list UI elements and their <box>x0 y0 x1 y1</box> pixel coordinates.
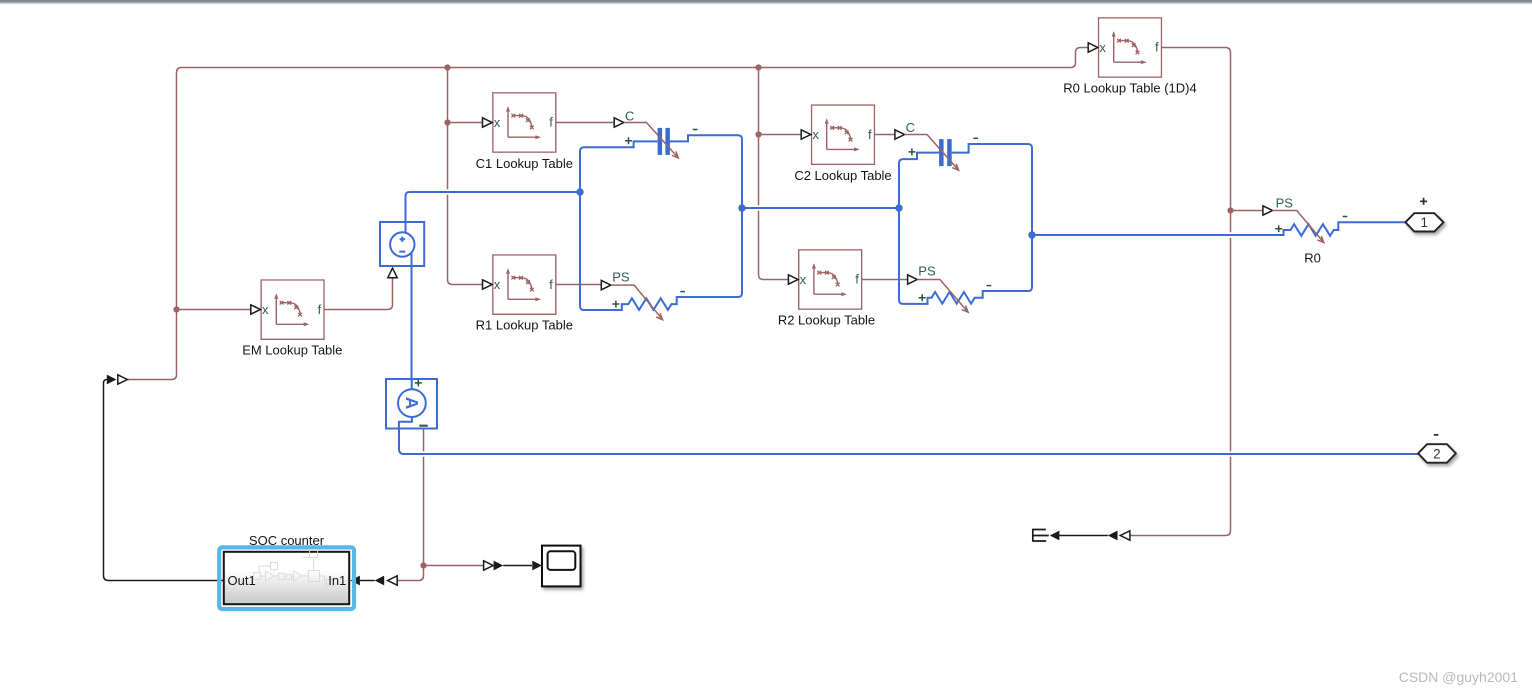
converter arrow (E side) <box>1108 531 1118 541</box>
svg-text:R1 Lookup Table: R1 Lookup Table <box>476 318 573 333</box>
svg-text:CSDN @guyh2001: CSDN @guyh2001 <box>1399 669 1518 685</box>
plus resistor branch 2 <box>919 294 926 301</box>
PS input triangle of voltage source (points up) <box>388 268 397 278</box>
input triangle R1 <box>483 280 493 289</box>
ammeter minus bar <box>419 425 427 427</box>
wire electrical RC branch 2 loop <box>899 144 1032 304</box>
wire PS variable-resistor arrow branch 1 <box>611 285 663 320</box>
junction node top rail / C2R2 branch <box>755 64 761 70</box>
current sensor (ammeter) block <box>386 379 437 429</box>
svg-text:C2 Lookup Table: C2 Lookup Table <box>794 168 891 183</box>
wire junction to scope converter <box>424 565 484 567</box>
wire branch 2 to R0 resistor and port 1 <box>1032 222 1418 236</box>
plus/minus polarity marks (dark green) <box>612 130 1347 308</box>
controlled voltage source block <box>380 222 424 266</box>
wire C1 output to C port label <box>557 122 615 124</box>
svg-text:C: C <box>625 108 634 123</box>
arrow into E symbol <box>1050 531 1060 541</box>
junction node ammeter output split <box>420 562 426 568</box>
SOC counter subsystem block <box>224 552 349 604</box>
electrical reference E symbol <box>1033 529 1049 542</box>
svg-text:PS: PS <box>612 269 630 284</box>
SOC ghost contents <box>254 550 334 587</box>
junction node C2 branch <box>755 131 761 137</box>
junction node EM branch <box>173 306 179 312</box>
wire C2 output to C port label <box>875 134 896 136</box>
ammeter plus mark <box>415 379 422 386</box>
wire C variable-capacitor arrow branch 1 <box>624 123 679 158</box>
PS diagonal arrows over components <box>611 123 1324 320</box>
wire ammeter PS output down to junction and SOC converter <box>396 429 423 581</box>
converter hollow triangle (E side) <box>1120 531 1130 540</box>
wire PS variable-resistor arrow branch 2 <box>917 280 968 313</box>
converter arrow to SOC <box>375 576 385 586</box>
white casings for blue wires crossing brown wires <box>404 192 1418 454</box>
input triangle C1 <box>483 118 493 127</box>
plus resistor branch 1 <box>612 301 619 308</box>
capacitor plates branch 2 <box>939 139 944 166</box>
minus cap branch 2 <box>973 137 978 139</box>
signal arrow into PS converter (feedback) <box>107 375 117 385</box>
port label PS branch 1 <box>601 280 611 289</box>
plus mark above port 1 <box>1420 198 1427 205</box>
junction node branch2 output <box>1028 231 1035 238</box>
lookup table block R0 (1D)4 <box>1099 18 1162 77</box>
input triangle EM <box>251 305 261 314</box>
plus cap branch 1 <box>625 137 632 144</box>
lookup table block R2 <box>799 250 862 309</box>
wire converter to SOC In1 <box>360 580 375 582</box>
junction node source-branch1 <box>576 188 583 195</box>
minus cap branch 1 <box>693 129 698 131</box>
svg-text:C: C <box>906 120 915 135</box>
minus mark above port 2 <box>1434 434 1439 436</box>
svg-text:R0: R0 <box>1304 250 1321 265</box>
scope screen <box>548 551 576 570</box>
input triangle R2 <box>788 275 798 284</box>
wire voltage source top to branch 1 <box>406 192 582 222</box>
svg-text:C1 Lookup Table: C1 Lookup Table <box>476 156 573 171</box>
scope block <box>542 546 581 587</box>
SOC counter feedback wire (black) <box>104 380 224 581</box>
plus cap branch 2 <box>909 148 916 155</box>
minus resistor branch 1 <box>680 291 685 293</box>
port label PS branch 2 <box>908 275 918 284</box>
wire voltage source bottom to ammeter <box>411 266 413 379</box>
wire EM output to controlled voltage source <box>324 276 393 309</box>
port label PS of R0 resistor <box>1263 206 1273 215</box>
junction node branch2 mid <box>895 204 902 211</box>
junction node top rail / C1R1 branch <box>444 64 450 70</box>
wire junction to C2 input <box>759 134 802 136</box>
wire junction to R0 resistor PS port <box>1231 210 1263 212</box>
arrow into scope <box>532 561 542 571</box>
svg-text:SOC counter: SOC counter <box>249 533 325 548</box>
capacitor plates branch 1 <box>658 128 663 155</box>
svg-text:R2 Lookup Table: R2 Lookup Table <box>778 312 875 327</box>
wire PS variable-resistor arrow R0 <box>1273 211 1324 243</box>
wire electrical RC branch 1 loop <box>580 135 742 310</box>
SOC counter subsystem selection halo <box>219 547 354 609</box>
junction node R0 PS branch <box>1227 207 1233 213</box>
wire PS feedback from converter to EM/top rail vertical <box>127 48 1088 380</box>
svg-text:R0 Lookup Table (1D)4: R0 Lookup Table (1D)4 <box>1063 80 1196 95</box>
port label C branch 2 <box>895 130 905 139</box>
svg-text:1: 1 <box>1421 215 1429 230</box>
wire R0 lookup output down the right side <box>1129 48 1231 536</box>
junction node C1 branch <box>444 119 450 125</box>
wire vertical branch to C2 and R2 inputs <box>759 68 789 280</box>
svg-text:EM Lookup Table: EM Lookup Table <box>242 343 342 358</box>
svg-text:A: A <box>402 397 422 410</box>
port label C branch 1 <box>614 118 624 127</box>
wire C variable-capacitor arrow branch 2 <box>905 135 959 171</box>
svg-text:PS: PS <box>918 263 936 278</box>
output port 2 hexagon <box>1418 444 1456 463</box>
converter hollow triangle (scope side) <box>484 561 494 570</box>
input triangle C2 <box>801 130 811 139</box>
wire converter to scope <box>503 565 532 567</box>
junction node branch1 mid <box>738 204 745 211</box>
wire ammeter output to port 2 <box>399 429 1418 455</box>
lookup table block C1 <box>493 93 556 152</box>
svg-text:In1: In1 <box>328 573 346 588</box>
arrow into SOC In1 <box>350 576 360 586</box>
lookup table block C2 <box>812 105 875 164</box>
output port 1 hexagon <box>1405 213 1443 231</box>
svg-text:2: 2 <box>1433 446 1441 461</box>
wire vertical branch to C1 and R1 inputs <box>448 68 483 285</box>
minus resistor branch 2 <box>987 285 992 287</box>
wire branch 1 to branch 2 <box>742 207 899 209</box>
wire EM lookup input <box>177 309 252 311</box>
input triangle R0 lookup <box>1088 43 1098 52</box>
top toolbar strip <box>0 0 1532 2</box>
wire R2 output to PS port label <box>862 279 908 281</box>
converter hollow triangle (SOC side) <box>388 576 398 585</box>
minus R0 resistor <box>1343 216 1348 218</box>
wire junction to C1 input <box>448 122 483 124</box>
wire R1 output to PS port label <box>555 284 601 286</box>
lookup table block R1 <box>493 255 556 314</box>
svg-text:Out1: Out1 <box>228 573 256 588</box>
wire E symbol to converter <box>1059 535 1108 537</box>
svg-text:PS: PS <box>1276 195 1294 210</box>
plus R0 resistor <box>1275 225 1282 232</box>
converter arrow (scope side) <box>494 561 504 571</box>
lookup table block EM <box>261 280 324 339</box>
PS converter input triangle (feedback) <box>118 375 128 384</box>
